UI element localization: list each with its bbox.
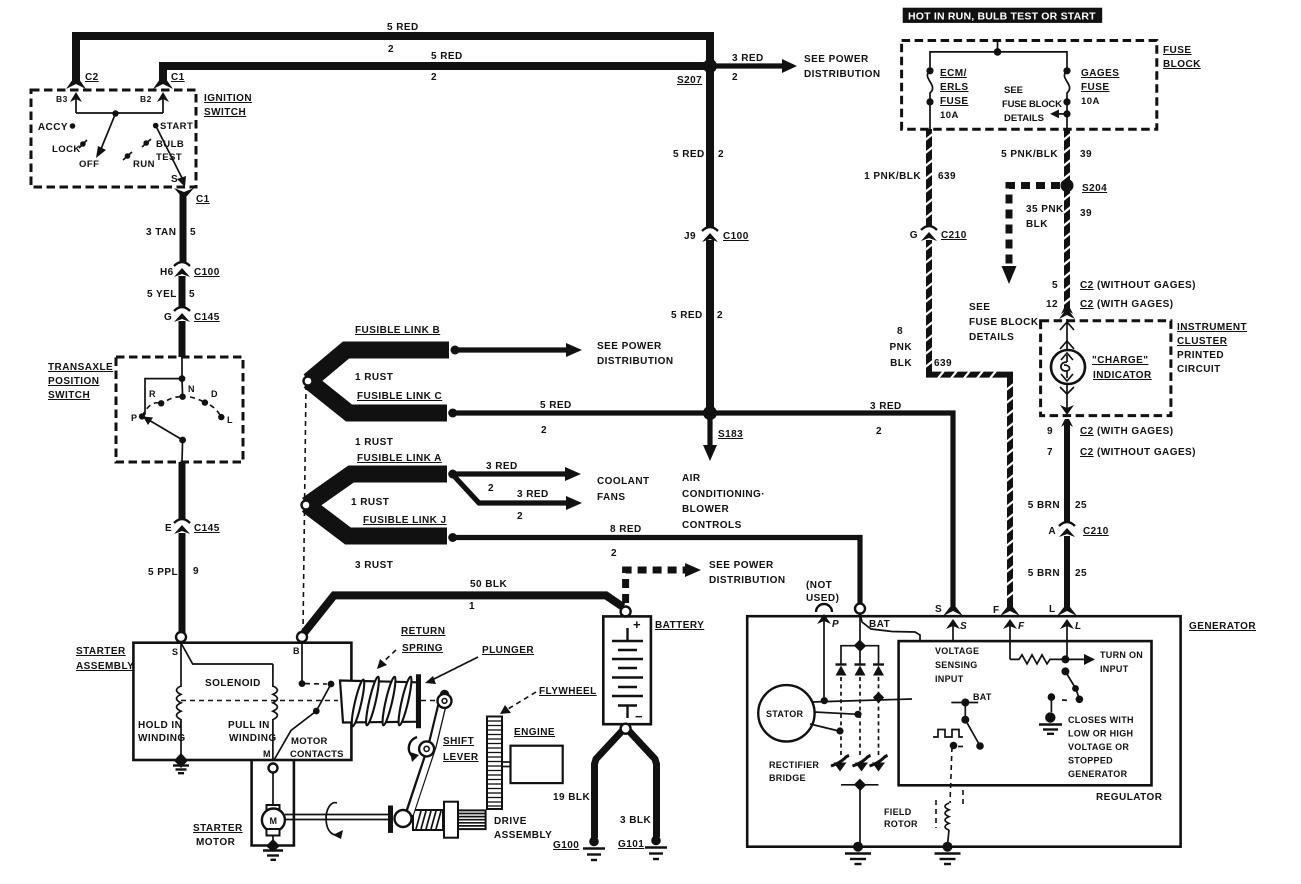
svg-text:INSTRUMENT: INSTRUMENT [1177, 322, 1247, 333]
svg-text:M: M [263, 749, 271, 759]
svg-text:10A: 10A [1081, 96, 1100, 107]
starter motor [267, 805, 280, 812]
wire 5 RED vertical C100 to S183 [706, 240, 714, 413]
svg-text:VOLTAGE: VOLTAGE [935, 646, 979, 656]
svg-text:B3: B3 [56, 94, 68, 104]
battery - terminal [626, 706, 628, 719]
svg-text:5: 5 [190, 227, 196, 238]
svg-text:1 RUST: 1 RUST [355, 372, 393, 383]
svg-text:9: 9 [1047, 426, 1053, 437]
wire 5 BRN 25 lower [1064, 536, 1070, 610]
REGULATOR [899, 641, 1152, 785]
svg-text:RECTIFIER: RECTIFIER [769, 760, 819, 770]
wire 39 S204 to cluster [1064, 190, 1070, 309]
connector A C210 [1059, 522, 1075, 526]
svg-text:PLUNGER: PLUNGER [482, 645, 534, 656]
svg-text:2: 2 [611, 548, 617, 559]
svg-text:BATTERY: BATTERY [655, 620, 704, 631]
svg-text:S: S [172, 647, 178, 657]
resistor [1010, 655, 1065, 664]
fuse block box [902, 41, 1157, 130]
svg-text:L: L [1049, 604, 1056, 615]
svg-text:COOLANT: COOLANT [597, 476, 650, 487]
svg-text:SEE POWER: SEE POWER [804, 54, 869, 65]
connector C1 (bottom) flare [174, 188, 194, 196]
svg-text:FUSE BLOCK: FUSE BLOCK [1002, 99, 1062, 110]
svg-text:5 YEL: 5 YEL [147, 289, 177, 300]
connector H6 C100 [174, 262, 190, 266]
svg-text:PULL IN: PULL IN [228, 720, 270, 731]
svg-text:SWITCH: SWITCH [48, 390, 90, 401]
svg-text:E: E [165, 523, 172, 534]
svg-text:FUSE BLOCK: FUSE BLOCK [969, 317, 1039, 328]
arrow to details [1058, 113, 1067, 115]
white hatches on striped wires [924, 133, 1072, 599]
svg-text:S: S [171, 174, 178, 185]
svg-text:BLOCK: BLOCK [1163, 59, 1201, 70]
svg-text:M: M [270, 816, 278, 826]
svg-text:FUSE: FUSE [940, 96, 968, 107]
svg-text:CLUSTER: CLUSTER [1177, 336, 1228, 347]
svg-text:2: 2 [718, 149, 724, 160]
svg-text:2: 2 [517, 511, 523, 522]
svg-text:F: F [993, 605, 1000, 616]
svg-text:8: 8 [897, 326, 903, 337]
TOP WIRES [76, 22, 881, 531]
svg-text:DISTRIBUTION: DISTRIBUTION [597, 356, 674, 367]
shaft rotation arrow [326, 803, 339, 835]
svg-text:B2: B2 [140, 94, 152, 104]
svg-text:HOLD IN: HOLD IN [138, 720, 182, 731]
svg-text:USED): USED) [806, 593, 839, 604]
svg-text:(WITHOUT GAGES): (WITHOUT GAGES) [1097, 280, 1196, 291]
instrument cluster box [1041, 321, 1171, 416]
connector J9 C100 [702, 227, 718, 231]
svg-text:SEE: SEE [969, 302, 990, 313]
svg-text:BLK: BLK [1026, 219, 1048, 230]
wire 3 RED arrow to power distribution [716, 63, 784, 68]
svg-text:TRANSAXLE: TRANSAXLE [48, 362, 113, 373]
node joining links B and C [304, 377, 313, 386]
svg-text:5 RED: 5 RED [540, 400, 572, 411]
fusible link A [307, 474, 447, 505]
FUSE BLOCK [902, 8, 1202, 130]
wire arrow down to AC blower controls [707, 418, 712, 447]
wire 5 RED from link C to S183 and 3 RED to generator S [453, 413, 953, 610]
battery negative node [621, 724, 631, 734]
wire 3 TAN [180, 194, 187, 263]
pull in winding [181, 643, 273, 664]
svg-text:25: 25 [1075, 568, 1087, 579]
lever rotation arrow [409, 737, 417, 757]
svg-text:REGULATOR: REGULATOR [1096, 792, 1163, 803]
armature shaft [285, 814, 389, 816]
connector C2 flare [66, 79, 86, 89]
svg-text:GENERATOR: GENERATOR [1068, 769, 1128, 779]
transaxle position switch box [116, 357, 243, 462]
svg-text:5 PNK/BLK: 5 PNK/BLK [1001, 149, 1058, 160]
svg-text:INPUT: INPUT [1100, 664, 1129, 674]
svg-text:5 RED: 5 RED [387, 22, 419, 33]
svg-text:LEVER: LEVER [443, 752, 479, 763]
shaft flange [388, 806, 393, 833]
svg-text:19 BLK: 19 BLK [553, 792, 590, 803]
svg-text:(WITHOUT GAGES): (WITHOUT GAGES) [1097, 447, 1196, 458]
plunger dashed link line [181, 700, 338, 702]
svg-text:P: P [131, 413, 137, 423]
svg-text:5: 5 [189, 289, 195, 300]
svg-text:S183: S183 [718, 429, 743, 440]
LEFT CHAIN [146, 194, 220, 357]
svg-text:S207: S207 [677, 75, 702, 86]
svg-text:DRIVE: DRIVE [494, 816, 527, 827]
svg-text:STOPPED: STOPPED [1068, 756, 1113, 766]
svg-text:BLOWER: BLOWER [682, 504, 729, 515]
svg-text:1 RUST: 1 RUST [355, 437, 393, 448]
terminal S flare [943, 607, 963, 616]
svg-text:C210: C210 [1083, 526, 1109, 537]
fuse ECM/ERLS 10A [926, 67, 933, 74]
wire 8 PNK BLK 639 [929, 240, 1010, 610]
svg-text:R: R [149, 389, 156, 399]
svg-text:SWITCH: SWITCH [204, 107, 246, 118]
svg-text:25: 25 [1075, 500, 1087, 511]
lever ball [395, 810, 412, 827]
ground below starter motor [272, 836, 274, 842]
svg-text:2: 2 [717, 310, 723, 321]
svg-text:C100: C100 [723, 231, 749, 242]
svg-text:RETURN: RETURN [401, 626, 445, 637]
svg-text:SOLENOID: SOLENOID [205, 678, 261, 689]
svg-text:FUSIBLE LINK A: FUSIBLE LINK A [357, 453, 442, 464]
svg-text:3 RED: 3 RED [486, 461, 518, 472]
terminal BAT [855, 604, 865, 614]
svg-text:S204: S204 [1082, 183, 1107, 194]
wire into bulb [1066, 319, 1068, 350]
wire 5 RED from C1 to S207 [163, 66, 712, 84]
svg-text:(NOT: (NOT [806, 580, 832, 591]
svg-text:L: L [227, 415, 233, 425]
svg-text:7: 7 [1047, 447, 1053, 458]
plunger dashed link [421, 700, 437, 702]
fusible link C [309, 381, 447, 413]
voltage switch right [1061, 667, 1069, 675]
wire 5 RED vertical S207 to C100 [706, 66, 714, 227]
terminal B2 arrow [157, 92, 169, 102]
svg-text:2: 2 [876, 426, 882, 437]
svg-text:G101: G101 [618, 839, 644, 850]
svg-text:GENERATOR: GENERATOR [1189, 621, 1256, 632]
contact P [139, 413, 145, 419]
svg-text:HOT IN RUN, BULB TEST OR START: HOT IN RUN, BULB TEST OR START [908, 11, 1096, 23]
switch lever to OFF [101, 114, 116, 150]
PNKBLK [864, 129, 1196, 610]
svg-text:STARTER: STARTER [76, 646, 126, 657]
svg-text:AIR: AIR [682, 473, 701, 484]
node joining links A and J [302, 501, 311, 510]
svg-text:39: 39 [1080, 208, 1092, 219]
svg-text:FANS: FANS [597, 492, 625, 503]
hold in winding [180, 642, 182, 687]
feed stub [997, 41, 999, 52]
svg-text:12: 12 [1046, 299, 1058, 310]
wire 5 RED from C2 to S207 [76, 36, 710, 84]
svg-text:S: S [960, 621, 967, 632]
turn on input arrow [1065, 658, 1085, 660]
lower diodes [831, 755, 888, 771]
svg-text:−: − [635, 709, 643, 724]
contact RUN [125, 153, 131, 159]
wire 19 BLK to G100 [595, 731, 623, 838]
svg-text:DISTRIBUTION: DISTRIBUTION [804, 69, 881, 80]
svg-text:"CHARGE": "CHARGE" [1092, 355, 1148, 366]
wire 8 RED to generator BAT [453, 538, 860, 604]
svg-text:C1: C1 [171, 72, 185, 83]
IGNITION SWITCH [31, 72, 252, 205]
contact START [153, 123, 159, 129]
svg-text:5 RED: 5 RED [431, 51, 463, 62]
generator ground right [943, 842, 953, 852]
GENERATOR [747, 580, 1256, 864]
engine shaft [502, 761, 511, 763]
svg-text:POSITION: POSITION [48, 376, 99, 387]
svg-text:ENGINE: ENGINE [514, 727, 555, 738]
svg-text:B: B [293, 646, 300, 656]
svg-text:C2: C2 [1080, 280, 1094, 291]
generator box [747, 616, 1180, 847]
fuse GAGES 10A [1063, 67, 1070, 74]
svg-text:ACCY: ACCY [38, 122, 68, 133]
svg-text:ASSEMBLY: ASSEMBLY [494, 830, 552, 841]
starter motor housing [252, 760, 294, 845]
svg-text:FUSIBLE LINK C: FUSIBLE LINK C [357, 391, 442, 402]
motor contacts [301, 642, 303, 684]
FUSIBLE LINKS [302, 325, 954, 631]
wire 50 BLK [304, 595, 623, 633]
svg-text:C210: C210 [941, 230, 967, 241]
svg-text:3 RED: 3 RED [732, 53, 764, 64]
splice S207 [703, 59, 717, 73]
svg-text:MOTOR: MOTOR [196, 837, 236, 848]
svg-text:8 RED: 8 RED [610, 524, 642, 535]
svg-text:DETAILS: DETAILS [1004, 113, 1044, 124]
svg-text:3 RED: 3 RED [870, 401, 902, 412]
wire START to S [156, 126, 183, 180]
connector flare below cluster [1061, 419, 1073, 427]
battery plates [612, 640, 643, 642]
ground in regulator [1045, 712, 1055, 722]
generator ground left [853, 842, 863, 852]
svg-text:INDICATOR: INDICATOR [1093, 370, 1152, 381]
drive assembly helix [413, 810, 443, 830]
wire 5 PNK/BLK 39 [1064, 129, 1070, 181]
connector G C210 [921, 226, 937, 230]
svg-text:G: G [910, 230, 918, 241]
svg-text:H6: H6 [160, 267, 174, 278]
engine box [511, 746, 563, 783]
contact R [158, 400, 164, 406]
svg-text:FUSIBLE LINK J: FUSIBLE LINK J [363, 515, 447, 526]
svg-text:2: 2 [388, 44, 394, 55]
svg-text:SEE POWER: SEE POWER [709, 560, 774, 571]
svg-text:2: 2 [431, 72, 437, 83]
svg-text:3 TAN: 3 TAN [146, 227, 176, 238]
connector arrow into cluster [1059, 308, 1075, 319]
svg-text:BAT: BAT [973, 692, 992, 702]
svg-text:G100: G100 [553, 840, 579, 851]
svg-text:1 PNK/BLK: 1 PNK/BLK [864, 171, 921, 182]
svg-text:IGNITION: IGNITION [204, 93, 252, 104]
ignition switch box [31, 90, 196, 187]
svg-text:C145: C145 [194, 312, 220, 323]
svg-text:FUSE: FUSE [1163, 45, 1191, 56]
splice S204 [1061, 179, 1074, 192]
svg-text:LOW OR HIGH: LOW OR HIGH [1068, 729, 1133, 739]
oscillator square wave [933, 730, 963, 738]
svg-text:5 RED: 5 RED [671, 310, 703, 321]
contact arc dashed [142, 397, 221, 417]
battery positive node [621, 607, 631, 617]
svg-text:ROTOR: ROTOR [884, 819, 918, 829]
svg-text:N: N [188, 384, 195, 394]
svg-text:SEE POWER: SEE POWER [597, 341, 662, 352]
svg-text:FUSIBLE LINK B: FUSIBLE LINK B [355, 325, 440, 336]
svg-text:MOTOR: MOTOR [291, 736, 328, 747]
svg-text:DISTRIBUTION: DISTRIBUTION [709, 575, 786, 586]
wire M to motor [272, 773, 274, 807]
node at N feed [179, 375, 186, 382]
dashed feeder wire to starter B [303, 385, 306, 631]
contact BULB TEST [143, 140, 149, 146]
svg-text:C2: C2 [1080, 447, 1094, 458]
internal bus wire [76, 112, 163, 114]
svg-text:C2: C2 [1080, 426, 1094, 437]
switch lever [148, 420, 183, 441]
terminal S node [176, 632, 186, 642]
wire below switch [179, 462, 186, 520]
svg-text:ERLS: ERLS [940, 82, 968, 93]
svg-text:PNK: PNK [890, 342, 913, 353]
svg-text:A: A [1048, 526, 1056, 537]
svg-text:STATOR: STATOR [766, 709, 803, 719]
svg-text:50 BLK: 50 BLK [470, 579, 507, 590]
battery box [603, 616, 651, 724]
svg-text:SHIFT: SHIFT [443, 736, 474, 747]
contact ACCY [70, 123, 76, 129]
wire 3 BLK to G101 [629, 731, 657, 837]
wire out of bulb [1066, 384, 1068, 413]
svg-text:C145: C145 [194, 523, 220, 534]
connector flare into cluster [1061, 306, 1073, 314]
stator [758, 685, 814, 741]
fusible link J [307, 505, 447, 536]
svg-text:35 PNK·: 35 PNK· [1026, 204, 1068, 215]
svg-text:3 RUST: 3 RUST [355, 560, 393, 571]
connector E C145 [174, 519, 190, 523]
svg-text:1: 1 [469, 601, 475, 612]
svg-text:G: G [164, 312, 172, 323]
wire 1 PNK/BLK 639 [926, 129, 932, 227]
svg-text:BRIDGE: BRIDGE [769, 773, 806, 783]
svg-text:DETAILS: DETAILS [969, 332, 1014, 343]
svg-text:ECM/: ECM/ [940, 68, 967, 79]
contact LOCK [80, 141, 86, 147]
BAT wire into regulator [860, 614, 920, 641]
svg-text:SPRING: SPRING [402, 643, 443, 654]
svg-text:2: 2 [488, 483, 494, 494]
svg-text:SENSING: SENSING [935, 660, 978, 670]
svg-text:CONDITIONING·: CONDITIONING· [682, 489, 765, 500]
flywheel gear [487, 717, 502, 810]
stator phase 3 [810, 724, 839, 731]
wire arrow to power distribution [457, 347, 567, 352]
dashed wire arrow see power distribution [626, 570, 687, 603]
svg-text:STARTER: STARTER [193, 823, 243, 834]
svg-text:BULB: BULB [156, 139, 184, 150]
svg-text:START: START [160, 121, 193, 132]
wire 3 RED arrow to coolant fans (lower) [454, 476, 567, 503]
svg-text:5 BRN: 5 BRN [1028, 568, 1060, 579]
splice S183 [703, 406, 717, 420]
connector C1 flare [153, 79, 173, 89]
bracket wire to P [142, 379, 182, 416]
svg-text:(WITH GAGES): (WITH GAGES) [1097, 426, 1174, 437]
drive pinion splines [458, 810, 486, 829]
svg-text:CONTACTS: CONTACTS [290, 749, 344, 760]
svg-text:5: 5 [1052, 280, 1058, 291]
svg-text:+: + [633, 617, 641, 632]
svg-text:L: L [1075, 621, 1081, 632]
svg-text:2: 2 [541, 425, 547, 436]
svg-text:PRINTED: PRINTED [1177, 350, 1224, 361]
svg-text:3 RED: 3 RED [517, 489, 549, 500]
ground G101 [651, 836, 661, 846]
stator phase 2 [814, 712, 858, 714]
svg-text:FUSE: FUSE [1081, 82, 1109, 93]
svg-text:GAGES: GAGES [1081, 68, 1119, 79]
CLUSTER [1028, 306, 1247, 610]
STARTER [76, 626, 597, 860]
rectifier bottom bus [841, 784, 879, 786]
charge indicator bulb [1051, 350, 1085, 384]
ground at hold in winding [174, 753, 188, 768]
wire into switch [181, 357, 183, 379]
svg-text:CLOSES WITH: CLOSES WITH [1068, 715, 1134, 725]
shift lever [409, 695, 445, 816]
svg-text:1 RUST: 1 RUST [351, 497, 389, 508]
svg-text:S: S [935, 604, 942, 615]
stator phase 1 to P node and regulator [812, 699, 912, 702]
header bar HOT IN RUN BULB TEST OR START [903, 8, 1102, 23]
svg-text:ASSEMBLY: ASSEMBLY [76, 661, 134, 672]
terminal L flare [1057, 607, 1077, 616]
svg-text:F: F [1018, 621, 1025, 632]
field rotor coil [950, 747, 952, 803]
svg-text:C100: C100 [194, 267, 220, 278]
switch pivot node [112, 110, 118, 116]
svg-text:5 BRN: 5 BRN [1028, 500, 1060, 511]
contact D [202, 399, 208, 405]
svg-text:SEE: SEE [1004, 85, 1023, 96]
svg-text:5 RED: 5 RED [673, 149, 705, 160]
svg-text:2: 2 [732, 72, 738, 83]
svg-text:OFF: OFF [79, 159, 99, 170]
BATTERY [304, 560, 786, 860]
svg-text:3 BLK: 3 BLK [620, 815, 651, 826]
svg-text:TURN ON: TURN ON [1100, 650, 1143, 660]
svg-text:LOCK: LOCK [52, 144, 81, 155]
svg-text:C2: C2 [1080, 299, 1094, 310]
